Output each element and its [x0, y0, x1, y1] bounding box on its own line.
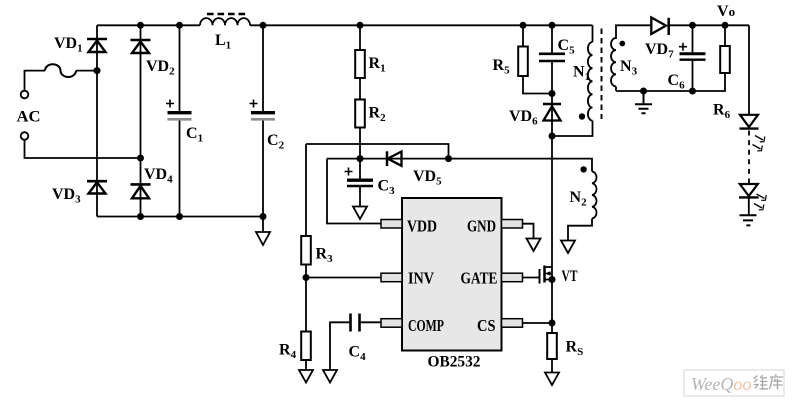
diode VD1 [87, 39, 107, 52]
ground earth secondary [635, 91, 652, 113]
svg-text:R2: R2 [369, 105, 387, 125]
node fuse junction [94, 67, 101, 74]
wire drain column [551, 121, 553, 333]
node N3 polarity dot [619, 41, 625, 47]
label C6 [668, 72, 686, 92]
wire R1 top [359, 25, 361, 50]
wire R6 top [724, 25, 726, 46]
svg-text:C3: C3 [378, 178, 396, 198]
wire N2 feed [449, 159, 593, 172]
label C1 [186, 125, 203, 145]
wire R3-R4 [305, 265, 307, 332]
LED D1 arrows [753, 136, 765, 151]
node R1 top [357, 22, 364, 29]
ground C4 [323, 370, 337, 383]
LED D2 [739, 184, 759, 197]
node Vo [722, 22, 729, 29]
wire secondary bottom [616, 73, 725, 91]
node N2 polarity dot [580, 166, 586, 172]
diode VD5 [387, 151, 402, 166]
ground C2 [256, 232, 270, 245]
resistor R2 [355, 100, 365, 128]
resistor RS [547, 333, 557, 359]
diode VD2 [131, 40, 151, 53]
ground N2 [561, 241, 575, 254]
ground GND pin [527, 239, 541, 252]
capacitor C2 [250, 25, 276, 216]
wire VDD supply [327, 159, 381, 224]
label L1 [215, 32, 231, 52]
wire VD6 top [551, 94, 553, 121]
svg-text:VDD: VDD [407, 217, 437, 236]
svg-text:R4: R4 [279, 342, 297, 362]
LED D1 [740, 115, 759, 129]
wire fuse to bridge [76, 70, 97, 72]
capacitor C4 [330, 314, 381, 370]
ground R4 [299, 370, 313, 383]
wire LED dashed link [748, 131, 750, 184]
label pin INV [408, 269, 435, 288]
label N3 [620, 58, 638, 78]
fuse [45, 64, 76, 77]
node VD2 top [137, 22, 144, 29]
label C4 [349, 344, 367, 364]
watermark box [684, 370, 784, 396]
resistor R5 [518, 47, 528, 77]
LED D2 arrows [754, 194, 766, 210]
pin CS [502, 319, 523, 328]
node snubber junction [549, 90, 556, 97]
label C3 [378, 178, 396, 198]
svg-text:L1: L1 [215, 32, 231, 52]
transistor VT arrow [545, 271, 551, 275]
pin GATE [502, 273, 523, 282]
wire VD1 column [96, 25, 98, 216]
svg-text:WeeQoo: WeeQoo [691, 374, 751, 394]
wire R5 bottom [523, 76, 552, 94]
svg-text:R6: R6 [713, 102, 731, 122]
label VD6 [509, 108, 538, 128]
svg-text:RS: RS [566, 339, 584, 359]
diode VD4 [131, 184, 151, 198]
label VD4 [144, 166, 173, 186]
label RS [566, 339, 584, 359]
ground earth LED [740, 215, 757, 225]
svg-text:VD1: VD1 [54, 35, 83, 55]
resistor R6 [720, 46, 730, 73]
svg-text:VD2: VD2 [146, 58, 175, 78]
wire R2 bottom [359, 128, 361, 159]
node AC-VD2 junction [137, 155, 144, 162]
ground C3 [353, 207, 367, 220]
svg-text:VD7: VD7 [645, 41, 674, 61]
node earth junction [640, 88, 647, 95]
svg-text:C2: C2 [267, 132, 285, 152]
svg-text:COMP: COMP [408, 316, 444, 335]
diode VD7 [651, 18, 668, 36]
svg-text:Vo: Vo [717, 3, 735, 20]
wire feedback top [306, 144, 449, 159]
label VD7 [645, 41, 674, 61]
wire CS pin [523, 322, 553, 324]
AC source terminals [21, 91, 29, 140]
label N2 [570, 189, 588, 209]
svg-text:VD3: VD3 [52, 186, 81, 206]
label C2 [267, 132, 285, 152]
label pin VDD [407, 217, 437, 236]
resistor R3 [301, 236, 311, 265]
label R1 [369, 55, 386, 75]
ground RS [545, 373, 559, 386]
node VT source [549, 276, 556, 283]
capacitor C6 [679, 25, 706, 91]
pin INV [381, 273, 402, 282]
diode VD3 [87, 181, 107, 193]
wire LED column top [748, 25, 750, 114]
svg-text:C1: C1 [186, 125, 203, 145]
node CS junction [549, 320, 556, 327]
node C6 top [689, 22, 696, 29]
label C5 [558, 37, 576, 57]
label R2 [369, 105, 387, 125]
svg-text:R5: R5 [493, 57, 511, 77]
svg-text:C5: C5 [558, 37, 576, 57]
node C1 bottom [176, 213, 183, 220]
wire bottom rail [97, 217, 263, 233]
node INV junction [303, 274, 310, 281]
label VT [562, 268, 578, 285]
label N1 [573, 64, 590, 84]
node C2 top [260, 22, 267, 29]
pin VDD [381, 220, 402, 229]
wire R5 top [522, 25, 524, 46]
svg-text:INV: INV [408, 269, 435, 288]
node C5 top [549, 22, 556, 29]
svg-text:C6: C6 [668, 72, 686, 92]
node VDD net junction [357, 155, 364, 162]
wire GATE pin [523, 277, 540, 279]
label VD2 [146, 58, 175, 78]
svg-text:VD6: VD6 [509, 108, 538, 128]
node VD4 bottom [137, 213, 144, 220]
svg-text:GND: GND [467, 217, 496, 236]
wire top rail left [97, 24, 200, 26]
svg-text:OB2532: OB2532 [428, 354, 481, 371]
label VD5 [413, 168, 442, 188]
wire R3 top [305, 144, 307, 236]
node C1 top [176, 22, 183, 29]
wire AC bottom lead [25, 140, 141, 158]
svg-text:VD5: VD5 [413, 168, 442, 188]
svg-text:AC: AC [17, 109, 41, 126]
svg-text:R1: R1 [369, 55, 386, 75]
label VD3 [52, 186, 81, 206]
transformer core [601, 29, 603, 120]
wire top rail mid [250, 24, 593, 26]
svg-text:GATE: GATE [461, 269, 498, 288]
op-amp U1 OB2532 body [402, 198, 502, 351]
label R6 [713, 102, 731, 122]
node VD5 anode junction [445, 155, 452, 162]
wire secondary top [616, 25, 749, 39]
wire INV [306, 277, 381, 279]
wire AC top lead [25, 71, 46, 91]
pin COMP [381, 319, 402, 328]
label OB2532 [428, 354, 481, 371]
label R3 [316, 246, 334, 266]
pin GND [502, 220, 523, 229]
resistor R1 [355, 50, 365, 78]
label pin COMP [408, 316, 444, 335]
node N1 polarity dot [579, 113, 585, 119]
transistor VT [540, 266, 553, 284]
capacitor C5 [539, 25, 565, 93]
label pin GND [467, 217, 496, 236]
capacitor C3 [345, 159, 374, 206]
label Vo [717, 3, 735, 20]
node drain junction [549, 133, 556, 140]
transformer N1 winding [552, 25, 593, 136]
svg-text:R3: R3 [316, 246, 334, 266]
node R5 top [520, 22, 527, 29]
resistor R4 [301, 332, 311, 361]
label VD1 [54, 35, 83, 55]
transformer N2 winding [568, 172, 597, 241]
svg-text:VT: VT [562, 268, 578, 285]
inductor L1 [200, 14, 250, 25]
svg-text:C4: C4 [349, 344, 367, 364]
wire RS bottom [551, 359, 553, 372]
wire R1-R2 [359, 78, 361, 100]
label R4 [279, 342, 297, 362]
wire GND pin [523, 224, 534, 238]
svg-text:N3: N3 [620, 58, 638, 78]
svg-text:CS: CS [477, 316, 496, 335]
watermark text [691, 374, 783, 394]
label pin CS [477, 316, 496, 335]
wire LED bottom stub [748, 198, 750, 215]
label R5 [493, 57, 511, 77]
transformer N3 winding [611, 38, 616, 91]
svg-text:VD4: VD4 [144, 166, 173, 186]
wire VD2 column [140, 25, 142, 216]
wire R4 bottom [305, 360, 307, 370]
svg-text:N2: N2 [570, 189, 588, 209]
label pin GATE [461, 269, 498, 288]
capacitor C1 [166, 25, 192, 216]
node C6 bottom [689, 88, 696, 95]
node C2 bottom [260, 213, 267, 220]
label AC [17, 109, 41, 126]
svg-text:N1: N1 [573, 64, 590, 84]
diode VD6 [543, 104, 561, 121]
wire VD5 rail [327, 158, 449, 160]
